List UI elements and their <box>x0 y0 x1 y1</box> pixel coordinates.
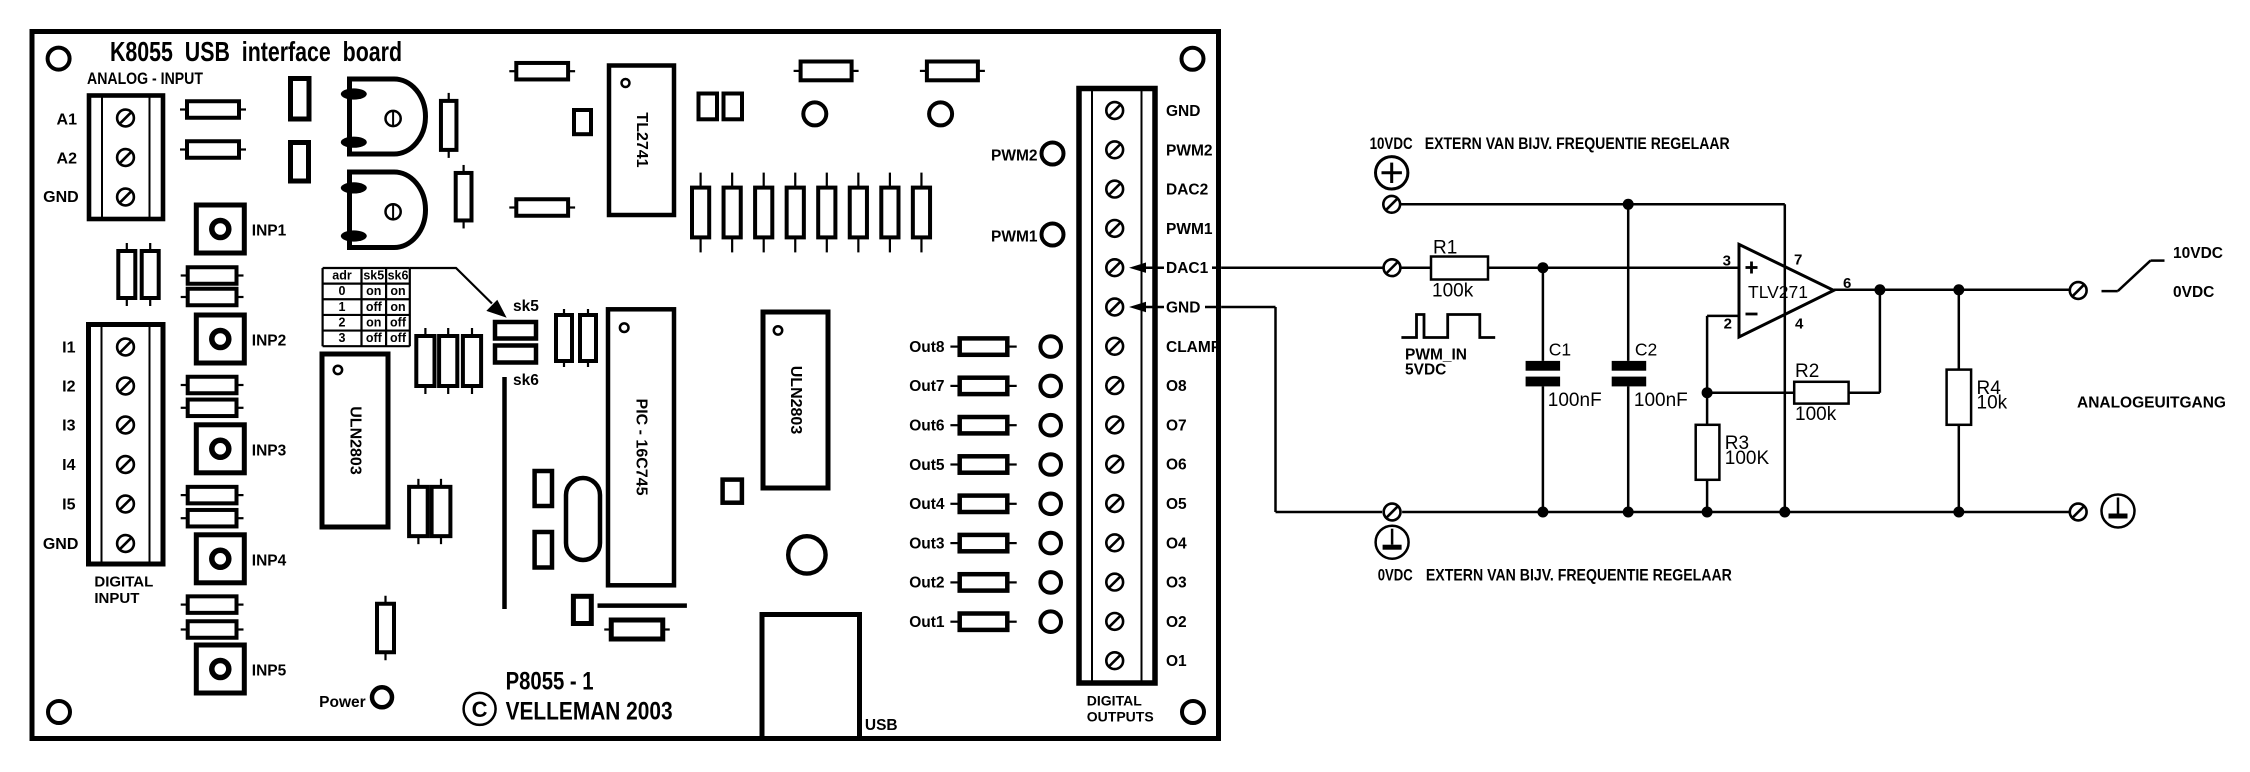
svg-text:10k: 10k <box>1977 393 2008 414</box>
svg-text:Out7: Out7 <box>909 378 944 395</box>
svg-text:3: 3 <box>1723 253 1731 270</box>
svg-text:Power: Power <box>319 694 366 711</box>
svg-text:O2: O2 <box>1166 614 1187 631</box>
svg-text:10VDC: 10VDC <box>2173 245 2223 262</box>
svg-text:USB: USB <box>865 717 898 734</box>
svg-text:C1: C1 <box>1549 340 1571 360</box>
svg-text:O3: O3 <box>1166 575 1187 592</box>
svg-text:OUTPUTS: OUTPUTS <box>1087 709 1154 725</box>
svg-text:I5: I5 <box>62 497 75 514</box>
svg-text:O8: O8 <box>1166 378 1187 395</box>
svg-text:TL2741: TL2741 <box>633 112 650 167</box>
svg-text:0VDC: 0VDC <box>1378 567 1413 585</box>
svg-text:I1: I1 <box>62 340 75 357</box>
svg-text:2: 2 <box>339 316 346 330</box>
svg-text:off: off <box>390 331 407 345</box>
svg-text:I2: I2 <box>62 379 75 396</box>
svg-text:sk6: sk6 <box>513 372 539 389</box>
svg-text:3: 3 <box>339 331 346 345</box>
svg-text:10VDC: 10VDC <box>1370 135 1413 153</box>
svg-text:100nF: 100nF <box>1634 390 1688 411</box>
svg-text:1: 1 <box>339 300 346 314</box>
svg-text:INP1: INP1 <box>252 223 287 240</box>
svg-text:5VDC: 5VDC <box>1405 362 1446 379</box>
svg-text:GND: GND <box>1166 300 1200 317</box>
svg-text:PWM2: PWM2 <box>1166 142 1213 159</box>
svg-text:TLV271: TLV271 <box>1748 282 1808 302</box>
svg-text:on: on <box>366 316 381 330</box>
svg-text:O4: O4 <box>1166 535 1187 552</box>
svg-text:7: 7 <box>1794 252 1802 269</box>
svg-text:R2: R2 <box>1795 361 1819 382</box>
svg-text:PWM1: PWM1 <box>1166 221 1213 238</box>
svg-text:0: 0 <box>339 284 346 298</box>
svg-text:INPUT: INPUT <box>94 590 139 607</box>
svg-text:0VDC: 0VDC <box>2173 284 2214 301</box>
svg-text:adr: adr <box>332 269 352 283</box>
svg-text:GND: GND <box>43 536 79 553</box>
svg-text:VELLEMAN 2003: VELLEMAN 2003 <box>506 698 673 726</box>
svg-text:Out6: Out6 <box>909 418 945 435</box>
svg-text:on: on <box>366 284 381 298</box>
svg-text:O1: O1 <box>1166 653 1187 670</box>
svg-text:4: 4 <box>1795 316 1804 333</box>
svg-text:100nF: 100nF <box>1548 390 1602 411</box>
svg-text:Out3: Out3 <box>909 535 945 552</box>
svg-text:INP3: INP3 <box>252 442 287 459</box>
svg-text:A2: A2 <box>57 151 78 168</box>
svg-text:PWM1: PWM1 <box>991 229 1038 246</box>
svg-text:Out8: Out8 <box>909 339 945 356</box>
svg-text:sk5: sk5 <box>363 269 384 283</box>
svg-text:DIGITAL: DIGITAL <box>1087 693 1142 709</box>
svg-text:ULN2803: ULN2803 <box>347 406 364 475</box>
svg-text:PIC - 16C745: PIC - 16C745 <box>633 399 650 496</box>
svg-text:C2: C2 <box>1635 340 1657 360</box>
svg-text:INP5: INP5 <box>252 663 287 680</box>
svg-text:100k: 100k <box>1795 404 1837 425</box>
svg-text:2: 2 <box>1724 316 1732 333</box>
svg-text:sk5: sk5 <box>513 298 539 315</box>
svg-text:off: off <box>390 316 407 330</box>
svg-text:DAC2: DAC2 <box>1166 182 1208 199</box>
svg-text:off: off <box>366 331 383 345</box>
svg-text:ANALOG - INPUT: ANALOG - INPUT <box>87 70 203 88</box>
svg-text:off: off <box>366 300 383 314</box>
svg-text:on: on <box>390 284 405 298</box>
svg-text:EXTERN VAN BIJV. FREQUENTIE RE: EXTERN VAN BIJV. FREQUENTIE REGELAAR <box>1426 567 1732 585</box>
svg-text:Out5: Out5 <box>909 457 945 474</box>
svg-text:I4: I4 <box>62 457 75 474</box>
svg-text:O5: O5 <box>1166 496 1187 513</box>
svg-text:on: on <box>390 300 405 314</box>
svg-text:EXTERN VAN BIJV. FREQUENTIE RE: EXTERN VAN BIJV. FREQUENTIE REGELAAR <box>1425 135 1730 153</box>
svg-text:K8055 USB interface board: K8055 USB interface board <box>110 36 402 67</box>
svg-text:O7: O7 <box>1166 417 1187 434</box>
svg-text:sk6: sk6 <box>388 269 409 283</box>
svg-text:O6: O6 <box>1166 457 1187 474</box>
svg-text:GND: GND <box>43 189 79 206</box>
svg-text:I3: I3 <box>62 418 75 435</box>
svg-text:CLAMP: CLAMP <box>1166 339 1221 356</box>
svg-text:INP4: INP4 <box>252 552 287 569</box>
svg-text:ANALOGEUITGANG: ANALOGEUITGANG <box>2077 395 2226 412</box>
svg-text:100k: 100k <box>1432 281 1474 302</box>
svg-text:ULN2803: ULN2803 <box>787 366 804 435</box>
svg-text:Out2: Out2 <box>909 575 944 592</box>
svg-text:100K: 100K <box>1725 448 1770 469</box>
svg-text:A1: A1 <box>57 111 78 128</box>
svg-text:C: C <box>472 697 488 722</box>
svg-text:GND: GND <box>1166 103 1200 120</box>
svg-text:Out1: Out1 <box>909 614 945 631</box>
svg-text:INP2: INP2 <box>252 333 286 350</box>
svg-text:P8055 - 1: P8055 - 1 <box>506 668 594 696</box>
svg-text:DIGITAL: DIGITAL <box>94 573 153 590</box>
svg-text:PWM2: PWM2 <box>991 148 1038 165</box>
svg-text:R1: R1 <box>1433 238 1457 259</box>
svg-text:DAC1: DAC1 <box>1166 260 1209 277</box>
svg-text:Out4: Out4 <box>909 496 945 513</box>
